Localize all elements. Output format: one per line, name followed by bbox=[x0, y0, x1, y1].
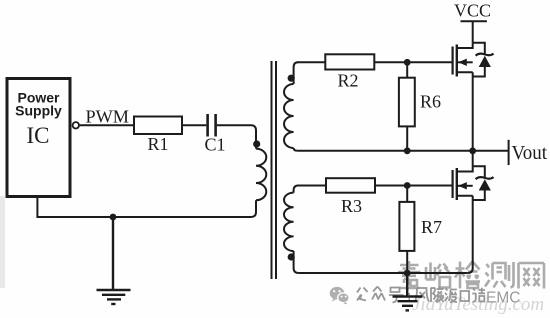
transistor Q2 MOSFET bbox=[453, 166, 473, 200]
VCC supply bar bbox=[461, 20, 487, 22]
wire R3 to Q2 gate bbox=[375, 185, 452, 187]
wire PWM to R1 bbox=[79, 124, 134, 126]
node junction dot R3-R7 bbox=[404, 182, 411, 189]
wire Vout rail bbox=[298, 150, 509, 152]
watermark big gray characters Jia Yu Jian Ce Wang bbox=[398, 261, 544, 289]
svg-text:Supply: Supply bbox=[15, 103, 62, 119]
resistor R7 bbox=[399, 202, 414, 251]
svg-text:IC: IC bbox=[27, 123, 50, 148]
wire VCC to Q1 drain bbox=[472, 21, 474, 43]
wire bottom secondary to R3 bbox=[297, 185, 326, 187]
watermark WeChat icon bbox=[330, 287, 350, 304]
ground GND1 bbox=[97, 217, 131, 304]
resistor R6 bbox=[399, 78, 415, 127]
node junction dot R7 bottom bbox=[404, 270, 411, 277]
bottom secondary phase dot bbox=[288, 253, 295, 260]
wire junction to R7 bbox=[406, 186, 408, 202]
left edge scan artifact bbox=[0, 196, 5, 288]
node junction dot on ground wire bbox=[110, 214, 117, 221]
watermark gray text gong zhong hao feng ling du kou hua EMC bbox=[357, 287, 485, 303]
svg-text:R3: R3 bbox=[341, 196, 362, 216]
wire R2 to Q1 gate bbox=[374, 61, 452, 63]
node junction dot Q1 source / Q2 drain bbox=[469, 147, 476, 154]
wire top secondary to R2 bbox=[297, 61, 325, 63]
resistor R3 bbox=[326, 178, 375, 193]
primary phase dot bbox=[253, 140, 260, 147]
wire Q1 source to Vout rail bbox=[472, 72, 474, 151]
svg-text:EMC: EMC bbox=[486, 289, 520, 306]
top secondary phase dot bbox=[288, 75, 295, 82]
wire R1 to C1 bbox=[182, 124, 206, 126]
wire junction to R6 bbox=[406, 62, 408, 77]
power supply IC box U1 bbox=[7, 79, 70, 197]
wire bottom rail bbox=[299, 272, 468, 274]
capacitor C1 bbox=[208, 114, 216, 137]
resistor R1 bbox=[134, 117, 182, 135]
svg-text:R6: R6 bbox=[420, 92, 441, 112]
wire R7 to bottom rail bbox=[406, 251, 408, 273]
Vout terminal bar bbox=[508, 140, 510, 165]
svg-text:PWM: PWM bbox=[86, 107, 130, 127]
ground GND2 bbox=[393, 273, 423, 310]
transformer T1 bottom secondary winding bbox=[284, 186, 299, 274]
svg-text:R1: R1 bbox=[147, 134, 168, 154]
wire Vout rail to Q2 drain bbox=[472, 151, 474, 167]
svg-text:VCC: VCC bbox=[454, 1, 491, 21]
transformer T1 core bbox=[272, 61, 277, 279]
svg-text:R2: R2 bbox=[337, 71, 358, 91]
node junction dot R6 bottom bbox=[404, 147, 411, 154]
svg-text:R7: R7 bbox=[421, 217, 442, 237]
svg-text:Vout: Vout bbox=[512, 142, 548, 164]
wire Q2 source to bottom rail bbox=[468, 196, 473, 273]
wire C1 to transformer primary bbox=[217, 125, 256, 141]
node junction dot R2-R6 bbox=[404, 59, 411, 66]
svg-text:C1: C1 bbox=[204, 135, 225, 155]
body diode D2 bbox=[473, 166, 494, 200]
transistor Q1 MOSFET bbox=[453, 43, 473, 77]
transformer T1 primary winding bbox=[251, 141, 266, 217]
wire R6 to Vout rail bbox=[406, 126, 408, 150]
body diode D1 bbox=[473, 43, 494, 77]
transformer T1 top secondary winding bbox=[284, 62, 298, 151]
wire IC ground return to primary bottom bbox=[37, 197, 251, 217]
resistor R2 bbox=[325, 54, 374, 69]
PWM output terminal circle bbox=[73, 122, 79, 128]
